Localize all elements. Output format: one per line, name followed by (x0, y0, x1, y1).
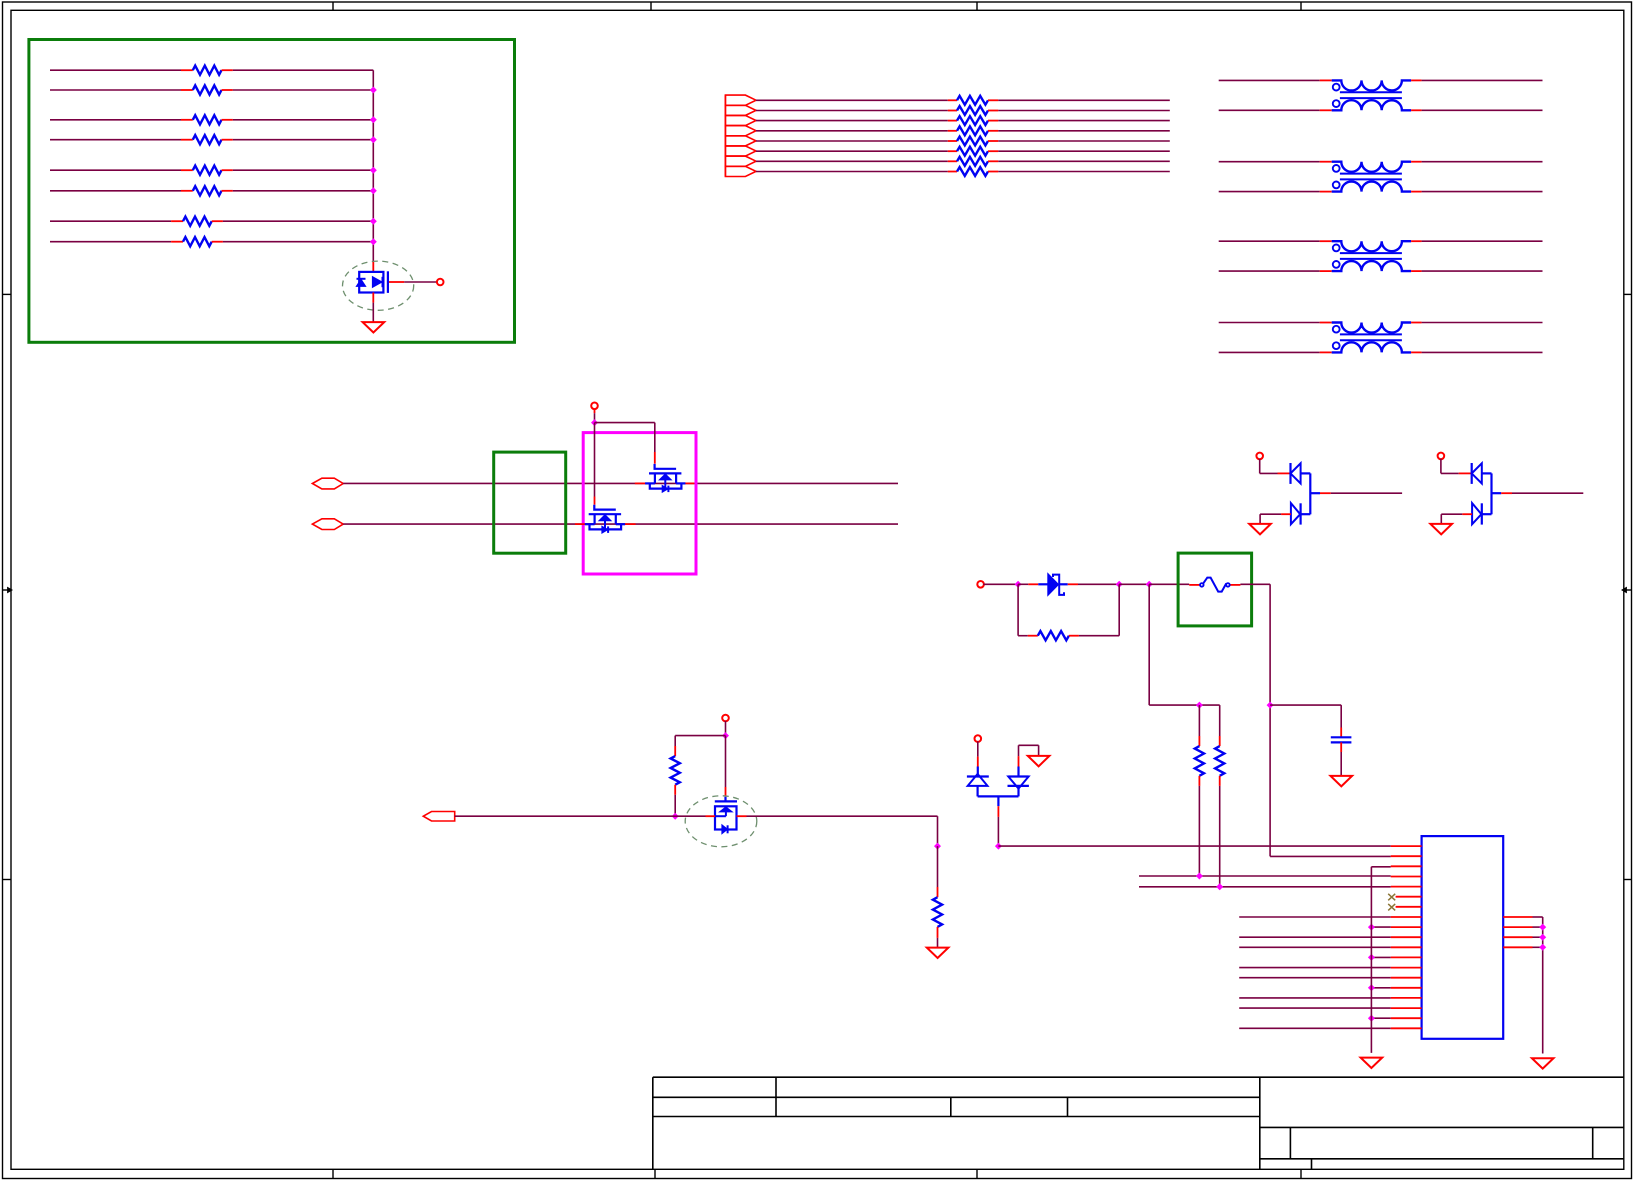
transformer T1 pin leads right (1411, 79, 1422, 81)
diode D2A (upper, pointing left) (1471, 463, 1473, 484)
IC U1 left pin 3 (1391, 865, 1422, 867)
no-connect X pin6 (1388, 894, 1395, 901)
transistor Q4 body (715, 806, 737, 829)
IC U1 left pin 11 (1391, 946, 1422, 948)
terminal circle D1 top (1256, 453, 1263, 460)
bus wire vertical (resistor commons) (372, 70, 374, 262)
IC U1 right pin 1 (1503, 916, 1532, 918)
transistor Q3 bottom rail (590, 524, 622, 529)
resistor R12 (948, 130, 957, 132)
transistor Q3 channel bar (589, 513, 621, 515)
wire down from terminal (725, 721, 727, 736)
wire stub to pin14 (1239, 977, 1391, 979)
transistor Q2 body diode (662, 486, 668, 493)
transformer T1 left wires (1219, 79, 1320, 81)
junction I (995, 843, 1002, 850)
IC U1 body (1422, 836, 1504, 1039)
wire from R13 right (998, 140, 1170, 142)
junction supply (591, 419, 598, 426)
wire fuse to corner (1240, 583, 1270, 585)
border zone ticks left (3, 293, 12, 295)
IC U1 left pin 7 (1396, 906, 1422, 908)
wire node C to fuse (1149, 583, 1189, 585)
wire row 3 left (50, 119, 181, 121)
group box (green) small (494, 452, 566, 553)
IC U1 left pin 9 (1391, 926, 1422, 928)
wire row 5 right to bus (233, 169, 373, 171)
transistor Q3 gate bar (594, 505, 616, 510)
wire from J1 pin 3 (756, 120, 948, 122)
border zone ticks top (332, 2, 334, 10)
wire D2 output (1501, 492, 1512, 494)
GND bus to pin3 (1371, 866, 1390, 868)
transistor Q3 terminals (593, 514, 595, 524)
title block row lines left (653, 1096, 1260, 1098)
transformer T1 windings (1332, 80, 1411, 90)
transformer T3 right wires (1422, 240, 1543, 242)
wire from R10 right (998, 110, 1170, 112)
zener pair common rail (978, 795, 1019, 797)
resistor R11 (948, 120, 957, 122)
wire input to node A (983, 583, 1018, 585)
wire row 1 left (50, 69, 181, 71)
border center arrow right (1627, 589, 1632, 591)
IC U1 left pin 2 (1391, 855, 1422, 857)
wire node C down (1148, 584, 1150, 705)
wire from J1 pin 4 (756, 130, 948, 132)
no-connect X pin7 (1388, 904, 1395, 911)
IC U1 left pin 1 (1391, 845, 1422, 847)
group box (green) around fuse (1178, 553, 1252, 626)
junction F (722, 732, 729, 739)
transistor Q1 source lead (372, 293, 374, 303)
ground for D6 (1028, 756, 1050, 766)
wire from R9 right (998, 99, 1170, 101)
transformer T2 windings (1332, 162, 1411, 172)
diode D1B (lower, pointing right) (1291, 503, 1300, 524)
capacitor C1 lower lead (1340, 742, 1342, 752)
resistor R1 (181, 69, 193, 71)
wire row 8 right to bus (223, 241, 373, 243)
transformer T2 right wires (1422, 161, 1543, 163)
wire junction F left to R20 (675, 735, 725, 737)
node C junction (1146, 581, 1153, 588)
transformer T1 pin leads left (1320, 79, 1332, 81)
IC U1 left pin 12 (1391, 956, 1422, 958)
transformer T2 polarity dots (1333, 165, 1340, 172)
border zone ticks bottom (332, 1169, 334, 1178)
resistor R17 (parallel with D3) (1017, 584, 1019, 635)
transistor Q2 lead left red (635, 482, 655, 484)
resistor R15 (948, 160, 957, 162)
wire from R14 right (998, 150, 1170, 152)
junction dots on bus (370, 87, 377, 94)
resistor R16 (948, 171, 957, 173)
IC U1 left pin 10 (1391, 936, 1422, 938)
terminal circle zener top (975, 735, 982, 742)
wire from J1 pin 6 (756, 150, 948, 152)
transformer T4 left wires (1219, 322, 1320, 324)
wire row 4 right to bus (233, 139, 373, 141)
wire stub to pin16 (1239, 997, 1391, 999)
resistor R21 (vertical to ground) (937, 846, 939, 887)
ground D1 (1249, 524, 1271, 534)
IC U1 left pin 14 (1391, 977, 1422, 979)
wire Q4 gate (725, 736, 727, 787)
wire row 2 right to bus (233, 89, 373, 91)
transistor Q3 lead left red (575, 523, 595, 525)
transformer T3 core lines (1340, 252, 1402, 254)
wire row 2 left (50, 89, 181, 91)
right GND bus vertical (1542, 917, 1544, 1054)
diode D6 (zener, cathode down) (1017, 767, 1019, 777)
title block cell dividers left (775, 1077, 777, 1116)
transistor Q3 substrate arrow (599, 515, 611, 521)
transformer T3 polarity dots (1333, 245, 1340, 252)
port P2 (hexagon) (312, 519, 343, 530)
ground below Q1 (363, 322, 385, 332)
transformer T4 pin leads right (1411, 322, 1422, 324)
wire stub to pin17 (1239, 1007, 1391, 1009)
group box (green) around resistor array (29, 40, 515, 343)
ground GND bus (1361, 1058, 1383, 1068)
resistor R20 (vertical) (674, 736, 676, 746)
GND bus vertical (1370, 867, 1372, 1053)
transformer T2 pin leads right (1411, 161, 1422, 163)
wire from R12 right (998, 130, 1170, 132)
IC U1 left pin 6 (1396, 896, 1422, 898)
wire row 3 right to bus (233, 119, 373, 121)
wire fuse-drop to pin2 (1270, 855, 1391, 857)
ground D2 (1430, 524, 1452, 534)
title block cell dividers right (1289, 1127, 1291, 1158)
wire from J1 pin 7 (756, 160, 948, 162)
diode D5 (zener, cathode up) (967, 775, 989, 777)
GND bus stub to pin18 (1371, 1017, 1390, 1019)
GND bus stub to pin15 (1371, 987, 1390, 989)
node E junction (1267, 702, 1274, 709)
diode bus D2 (1490, 473, 1492, 514)
fuse F1 leads (1189, 584, 1200, 586)
wire R18 row to pin4 (1139, 875, 1391, 877)
IC U1 left pin 5 (1391, 886, 1422, 888)
wire stub to pin19 (1239, 1027, 1391, 1029)
title block frame (653, 1076, 1624, 1078)
wire from J1 pin 5 (756, 140, 948, 142)
resistor R2 (181, 89, 193, 91)
wire P3 to Q4 (455, 815, 706, 817)
transistor Q2 bottom rail (650, 483, 682, 488)
IC U1 left pin 15 (1391, 987, 1422, 989)
transistor Q1 (MOSFET in green box) dashed ellipse (343, 261, 414, 310)
IC U1 right pin 4 (1503, 946, 1532, 948)
wire supply to Q2 gate (595, 422, 655, 424)
wire row 6 right to bus (233, 190, 373, 192)
transistor Q2 lead right red (676, 482, 694, 484)
wire from R11 right (998, 120, 1170, 122)
transistor Q4 dashed ellipse (685, 796, 757, 847)
transformer T1 polarity dots (1333, 84, 1340, 91)
wire row 1 right to bus (233, 69, 373, 71)
IC U1 left pin 19 (1391, 1027, 1422, 1029)
transistor Q2 terminals (654, 473, 656, 483)
IC U1 left pin 8 (1391, 916, 1422, 918)
wire R19 row to pin5 (1139, 886, 1391, 888)
wire D1 lower (1281, 513, 1291, 515)
node D junction (1196, 702, 1203, 709)
wire row 4 left (50, 139, 181, 141)
transformer T3 pin leads left (1320, 240, 1332, 242)
IC U1 left pin 16 (1391, 997, 1422, 999)
diode bus D1 (1309, 473, 1311, 514)
transistor Q1 body (359, 272, 383, 293)
transistor Q1 drain lead (372, 262, 374, 272)
terminal circle supply (591, 403, 598, 410)
transformer T4 right wires (1422, 322, 1543, 324)
transistor Q1 gate bar (387, 271, 389, 293)
wire Q4 to corner (747, 815, 938, 817)
IC U1 left pin 13 (1391, 967, 1422, 969)
wire row 5 left (50, 169, 181, 171)
ground below R21 (927, 948, 949, 958)
transistor Q2 substrate arrow (660, 474, 672, 480)
diode D1A (upper, pointing left) (1289, 463, 1291, 484)
transformer T3 windings (1332, 241, 1411, 251)
transformer T2 core lines (1340, 173, 1402, 175)
border zone ticks right (1624, 293, 1632, 295)
title block row lines right (1260, 1126, 1624, 1128)
wire stub to pin10 (1239, 936, 1391, 938)
resistor R8 (171, 241, 183, 243)
resistor R3 (181, 119, 193, 121)
connector J1 (8-pin header) (725, 95, 756, 105)
junction R18 bottom (1196, 873, 1203, 880)
GND bus stub to pin9 (1371, 926, 1390, 928)
terminal circle input (977, 581, 984, 588)
wire row 7 left (50, 220, 171, 222)
IC U1 right pin 3 (1503, 936, 1532, 938)
transistor Q2 channel bar (649, 472, 681, 474)
wire D3 to node B (1078, 583, 1119, 585)
wire stub to pin11 (1239, 946, 1391, 948)
IC U1 left pin 17 (1391, 1007, 1422, 1009)
terminal circle on Q1 gate (437, 279, 444, 286)
IC U1 left pin 18 (1391, 1017, 1422, 1019)
terminal circle D2 top (1438, 453, 1445, 460)
transformer T1 right wires (1422, 79, 1543, 81)
transformer T2 left wires (1219, 161, 1320, 163)
capacitor C1 (1331, 736, 1352, 738)
wire junction I to pin1 (998, 845, 1390, 847)
node B junction (1116, 581, 1123, 588)
transistor Q4 leads (706, 815, 716, 817)
IC U1 right pin 2 (1503, 926, 1532, 928)
junction G (672, 813, 679, 820)
port P1 (hexagon) (312, 478, 343, 489)
transformer T4 windings (1332, 323, 1411, 333)
wire net1 horizontal (343, 482, 898, 484)
GND bus stub to pin12 (1371, 956, 1390, 958)
wire node E to capacitor (1270, 704, 1341, 706)
group box (magenta) around Q2 Q3 (583, 433, 696, 574)
resistor R13 (948, 140, 957, 142)
transformer T1 core lines (1340, 91, 1402, 93)
wire from R16 right (998, 171, 1170, 173)
wire supply to Q3 gate (594, 423, 596, 497)
transistor Q3 lead right red (616, 523, 636, 525)
node A junction (1015, 581, 1022, 588)
resistor R18 (vertical) (1198, 705, 1200, 736)
transformer T2 pin leads left (1320, 161, 1332, 163)
wire node B to node C (1119, 583, 1149, 585)
transistor Q1 gate lead wire (389, 281, 404, 283)
wire D2 top (1440, 459, 1442, 474)
resistor R6 (181, 190, 193, 192)
transformer T3 left wires (1219, 240, 1320, 242)
resistor R5 (181, 169, 193, 171)
transistor Q3 body diode (602, 526, 608, 533)
IC U1 left pin 4 (1391, 876, 1422, 878)
wire Q1 source to ground (372, 303, 374, 322)
diode D2B (lower, pointing right) (1472, 503, 1481, 524)
wire stub to pin13 (1239, 967, 1391, 969)
fuse F1 (PTC) (1200, 583, 1204, 587)
transformer T4 pin leads left (1320, 322, 1332, 324)
resistor R4 (181, 139, 193, 141)
transformer T3 pin leads right (1411, 240, 1422, 242)
diode D3 (zener horizontal) (1018, 583, 1028, 585)
wire D2 lower (1462, 513, 1472, 515)
wire stub to pin8 (1239, 916, 1391, 918)
wire from J1 pin 1 (756, 99, 948, 101)
wire from R15 right (998, 160, 1170, 162)
transistor Q4 gate bar (715, 800, 737, 802)
wire supply down (594, 409, 596, 414)
wire row 8 left (50, 241, 171, 243)
wire down to D5 (977, 741, 979, 756)
wire D1 output (1320, 492, 1331, 494)
wire from J1 pin 2 (756, 110, 948, 112)
resistor R19 (vertical) (1219, 705, 1221, 736)
resistor R10 (948, 110, 957, 112)
resistor R14 (948, 150, 957, 152)
junction H (934, 843, 941, 850)
transistor Q2 gate bar (655, 464, 677, 469)
transformer T4 core lines (1340, 333, 1402, 335)
wire row 6 left (50, 190, 181, 192)
port P3 (arrow left) (423, 812, 454, 822)
wire fuse branch down (1269, 584, 1271, 856)
border center arrow left (3, 589, 8, 591)
terminal circle Q4 gate supply (722, 715, 729, 722)
wire from J1 pin 8 (756, 171, 948, 173)
wire D1 top (1259, 459, 1261, 474)
wire D6 top to ground (1018, 756, 1020, 766)
resistor R9 (948, 99, 957, 101)
wire net2 horizontal (343, 523, 898, 525)
ground right bus (1532, 1058, 1554, 1068)
transformer T4 polarity dots (1333, 326, 1340, 333)
ground below C1 (1331, 776, 1353, 786)
junction R19 bottom (1216, 883, 1223, 890)
resistor R7 (171, 220, 183, 222)
wire row 7 right to bus (223, 220, 373, 222)
